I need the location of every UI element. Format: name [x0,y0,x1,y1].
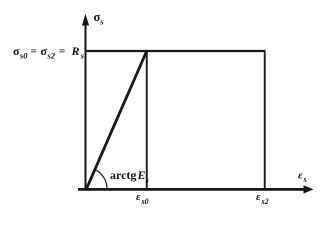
angle arc arctg Es [94,169,107,188]
svg-text:s2: s2 [47,51,56,61]
svg-text:s: s [303,175,307,184]
reference line at eps_s0 [146,52,148,189]
curve: yield plateau at R_s [85,50,266,52]
svg-text:ε: ε [136,191,141,203]
svg-text:arctg: arctg [110,168,136,182]
svg-text:=: = [31,46,37,58]
svg-text:=: = [59,46,65,58]
y-axis arrowhead [82,14,89,26]
svg-text:σ: σ [13,44,20,58]
reference line at eps_s2 [264,52,266,189]
svg-text:s2: s2 [261,197,269,206]
svg-text:R: R [71,44,80,58]
svg-text:E: E [137,168,146,182]
svg-text:s: s [145,175,150,185]
x-axis [78,188,306,191]
svg-text:ε: ε [298,170,303,182]
curve: elastic diagonal segment [86,52,147,191]
x-axis arrowhead [304,185,314,193]
svg-text:σ: σ [41,44,48,58]
svg-text:ε: ε [256,191,261,203]
svg-text:s0: s0 [141,197,149,206]
y-axis [85,24,87,190]
svg-text:s0: s0 [19,51,28,61]
svg-text:s: s [80,51,85,61]
svg-text:s: s [99,17,104,27]
